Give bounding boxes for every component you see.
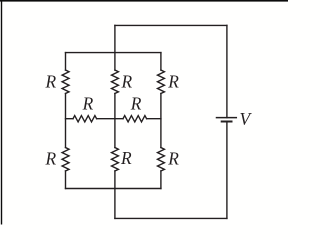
wire: bottom rail of bridge network — [66, 188, 161, 190]
resistor R (left top) — [62, 70, 69, 94]
resistor R (middle row right) — [123, 116, 147, 122]
resistor R (center top) — [112, 70, 119, 94]
wire: outer bottom — [115, 217, 227, 219]
wire: middle row center lead — [97, 118, 123, 120]
wire: left branch upper lead — [65, 53, 67, 70]
resistor R (right bottom) — [158, 148, 165, 172]
wire: outer right upper (to battery top plate) — [226, 25, 228, 117]
wire: outer right lower (battery - lead) — [226, 122, 228, 219]
svg-text:V: V — [240, 109, 253, 129]
svg-text:R: R — [45, 71, 57, 91]
wire: right branch middle lead — [160, 94, 162, 148]
battery V1 — [217, 118, 237, 122]
wire: right branch upper lead — [160, 53, 162, 70]
wire: middle row left lead — [66, 118, 74, 120]
resistor R (left bottom) — [62, 148, 69, 172]
svg-text:R: R — [167, 148, 179, 168]
resistor R (right top) — [158, 70, 165, 94]
wire: left branch lower lead — [65, 171, 67, 189]
wire: top rail of bridge network — [66, 52, 161, 54]
svg-text:R: R — [45, 148, 57, 168]
resistor R (middle row left) — [73, 116, 97, 122]
svg-text:R: R — [167, 71, 179, 91]
svg-text:R: R — [130, 93, 142, 113]
svg-text:R: R — [121, 71, 133, 91]
wire: right branch lower lead — [160, 171, 162, 189]
wire: center branch middle lead — [114, 94, 116, 148]
wire: center branch upper lead (top wire through top rail) — [114, 25, 116, 70]
wire: center branch lower lead (through bottom rail to outer bottom) — [114, 171, 116, 218]
wire: left branch middle lead — [65, 94, 67, 148]
svg-text:R: R — [82, 93, 94, 113]
wire: outer top (node top to battery +) — [115, 24, 227, 26]
resistor R (center bottom) — [112, 148, 119, 172]
svg-text:R: R — [120, 148, 132, 168]
wire: middle row right lead — [147, 118, 161, 120]
